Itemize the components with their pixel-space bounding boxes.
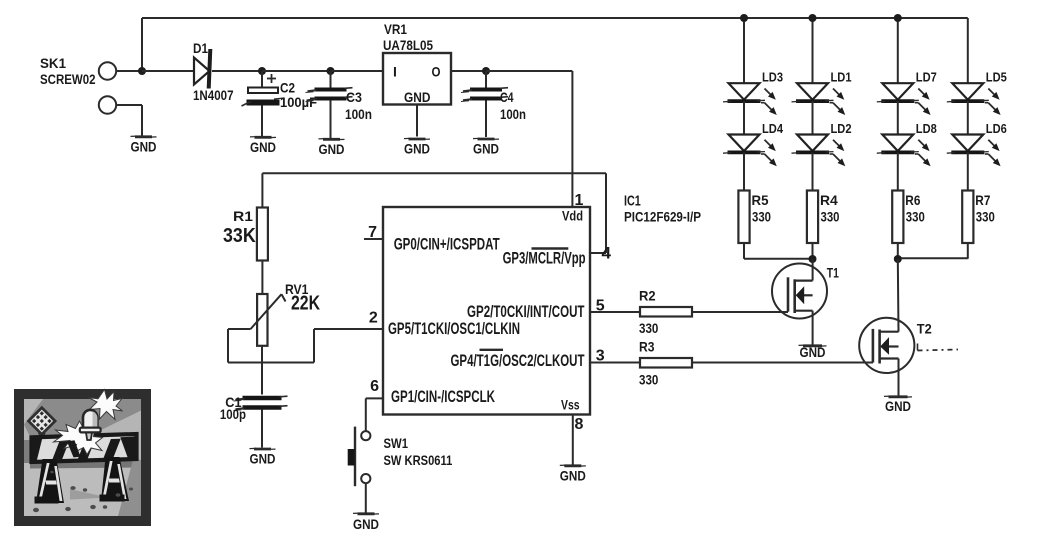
- svg-text:6: 6: [370, 378, 379, 395]
- svg-text:Vss: Vss: [561, 398, 580, 413]
- wire R5 bottom link to T1 drain node: [744, 258, 813, 260]
- wire SK1 pin1 to node A: [116, 70, 142, 72]
- svg-text:100n: 100n: [500, 107, 526, 122]
- node T2 drain junction dot: [894, 255, 902, 263]
- svg-text:GP0/CIN+/ICSPDAT: GP0/CIN+/ICSPDAT: [394, 235, 500, 254]
- logo LED lamp: [80, 410, 101, 440]
- resistor R5 330: [738, 191, 771, 244]
- wire C1 to ground: [261, 410, 263, 448]
- wire LD1 to LD2: [812, 101, 814, 135]
- wire pin 8 to ground: [572, 415, 574, 466]
- logo pebbles: [33, 471, 133, 513]
- ground (C4): [473, 138, 499, 156]
- diode D1 1N4007: [193, 40, 234, 103]
- svg-text:GND: GND: [250, 139, 276, 155]
- svg-text:33K: 33K: [223, 225, 256, 247]
- node C junction dot: [327, 67, 335, 75]
- op-amp IC1 PIC12F629 body: [383, 193, 701, 414]
- svg-text:GP4/T1G/OSC2/CLKOUT: GP4/T1G/OSC2/CLKOUT: [451, 351, 585, 370]
- wire top +V rail: [142, 17, 968, 19]
- svg-text:GND: GND: [404, 89, 431, 105]
- svg-text:4: 4: [602, 244, 612, 263]
- wire rail to LD3: [743, 18, 745, 83]
- wire Vpp net down to pin 4: [590, 173, 606, 253]
- svg-text:D1: D1: [193, 40, 208, 56]
- pin 1 Vdd label: [562, 192, 584, 224]
- LED LD6: [947, 135, 1001, 167]
- resistor R2 330: [639, 288, 692, 337]
- ground (T2): [884, 396, 912, 414]
- wire R6 down: [897, 243, 899, 259]
- wire VR1 GND pin: [416, 105, 418, 137]
- node B junction dot: [258, 67, 266, 75]
- wire wiper to IC1 pin 2: [314, 328, 383, 330]
- svg-text:GND: GND: [560, 467, 586, 483]
- svg-text:VR1: VR1: [384, 21, 407, 37]
- logo barrier left leg: [35, 459, 65, 504]
- wire rail to LD7: [897, 18, 899, 83]
- wire VR1 output to node D: [451, 70, 486, 72]
- wire D1 cathode to node B: [212, 70, 262, 72]
- svg-text:GND: GND: [131, 138, 157, 154]
- svg-text:330: 330: [976, 210, 995, 225]
- svg-text:GND: GND: [319, 141, 345, 157]
- wire node to T1 drain: [812, 259, 814, 281]
- logo flash right: [89, 390, 123, 420]
- svg-text:330: 330: [906, 210, 925, 225]
- svg-text:SK1: SK1: [40, 55, 66, 71]
- label SK1 SCREW02: [40, 55, 96, 87]
- svg-text:SCREW02: SCREW02: [40, 72, 96, 87]
- wire R1 to RV1: [261, 261, 263, 295]
- svg-text:1: 1: [575, 192, 584, 209]
- resistor R3 330: [639, 338, 692, 387]
- wire node D to IC1 pin 1: [486, 71, 572, 207]
- svg-text:LD2: LD2: [831, 121, 852, 136]
- wire pin 6 to SW1: [365, 398, 367, 431]
- ground (C2): [250, 137, 276, 155]
- resistor R1 33K: [223, 208, 268, 261]
- wire LD3 to LD4: [743, 101, 745, 135]
- svg-text:LD4: LD4: [762, 121, 784, 136]
- wire rail to LD5: [967, 18, 969, 83]
- wire RV1 bottom to C1: [261, 346, 263, 395]
- svg-text:GP3/MCLR/Vpp: GP3/MCLR/Vpp: [503, 249, 586, 268]
- wire LD8 to R6: [897, 153, 899, 191]
- svg-text:R7: R7: [975, 192, 990, 208]
- wire LD6 to R7: [967, 153, 969, 191]
- pin 7 label: [368, 224, 500, 254]
- svg-text:GND: GND: [800, 344, 826, 360]
- pin 3 GP4 label: [451, 348, 605, 371]
- transistor T2 MOSFET: [859, 318, 932, 373]
- svg-text:T1: T1: [827, 265, 839, 280]
- LED LD2: [792, 135, 846, 167]
- node rail junction LD3: [740, 14, 748, 22]
- wire node B down to C2: [261, 71, 263, 88]
- LED LD5: [947, 83, 1001, 115]
- wire C2 to ground: [261, 106, 263, 137]
- logo barrier right leg: [100, 457, 130, 502]
- svg-text:2: 2: [369, 309, 378, 326]
- svg-text:O: O: [432, 63, 441, 79]
- trimmer RV1 22K: [251, 281, 321, 346]
- svg-text:R4: R4: [820, 192, 838, 208]
- svg-text:LD3: LD3: [762, 69, 783, 84]
- svg-text:GND: GND: [473, 141, 499, 157]
- wire R5 down: [743, 243, 745, 259]
- wire T1 source to ground: [812, 311, 814, 346]
- ground (C1): [250, 448, 276, 466]
- svg-text:330: 330: [639, 373, 658, 388]
- svg-text:R5: R5: [752, 192, 769, 208]
- svg-text:R1: R1: [233, 208, 253, 224]
- svg-text:SW KRS0611: SW KRS0611: [384, 453, 453, 468]
- switch SW1 KRS0611: [348, 427, 453, 487]
- wire pin 5 to R2: [590, 311, 640, 313]
- wire node A to D1 anode: [142, 70, 194, 72]
- pin 5 GP2 label: [467, 297, 605, 321]
- svg-text:T2: T2: [917, 321, 932, 336]
- node rail junction LD7: [894, 14, 902, 22]
- svg-text:GND: GND: [404, 141, 430, 157]
- wire R2 to T1 gate: [692, 311, 788, 313]
- svg-text:GND: GND: [885, 398, 911, 414]
- LED LD8: [877, 135, 931, 167]
- LED LD4: [723, 135, 777, 167]
- logo roadworks frame: [14, 389, 151, 526]
- wire Vpp net down to R1: [261, 173, 263, 207]
- svg-text:LD6: LD6: [986, 121, 1007, 136]
- wire R7 down: [967, 243, 969, 259]
- svg-text:SW1: SW1: [384, 435, 409, 451]
- capacitor C4 100n: [461, 88, 526, 122]
- svg-text:R3: R3: [639, 338, 655, 354]
- svg-text:IC1: IC1: [624, 193, 641, 209]
- node A junction dot: [138, 67, 146, 75]
- capacitor C1 100p: [220, 394, 288, 422]
- node rail junction LD1: [809, 14, 817, 22]
- wire rail drop to SK1 node: [141, 18, 143, 71]
- wire wiper jog down: [228, 329, 314, 363]
- LED LD3: [723, 83, 777, 115]
- logo flash left: [54, 421, 103, 457]
- svg-text:8: 8: [575, 416, 584, 433]
- ground (SW1): [353, 513, 379, 532]
- wire node D down to C4: [485, 71, 487, 88]
- LED LD7: [877, 83, 931, 115]
- svg-text:330: 330: [639, 321, 658, 336]
- svg-text:1N4007: 1N4007: [193, 88, 234, 103]
- node D junction dot: [482, 67, 490, 75]
- regulator VR1 UA78L05: [383, 21, 451, 105]
- wire R7 bottom link to T2 drain node: [898, 257, 968, 259]
- wire LD4 to R5: [743, 153, 745, 191]
- svg-text:100p: 100p: [220, 407, 246, 422]
- transistor T1 MOSFET: [772, 264, 839, 319]
- logo gray background wedges: [24, 399, 141, 516]
- svg-text:C3: C3: [346, 89, 362, 105]
- logo checkered sign: [29, 408, 56, 439]
- svg-text:330: 330: [821, 210, 840, 225]
- svg-text:GP2/T0CKI/INT/COUT: GP2/T0CKI/INT/COUT: [467, 302, 585, 321]
- resistor R6 330: [892, 191, 925, 244]
- pin 7 GP0 stub: [364, 238, 383, 240]
- ground (SK1): [131, 136, 157, 154]
- wire C4 to ground: [485, 101, 487, 138]
- svg-text:I: I: [393, 63, 397, 79]
- wire Vpp net horizontal: [262, 172, 606, 174]
- wire LD2 to R4: [812, 153, 814, 191]
- wire SK1 pin2 to ground: [116, 105, 142, 136]
- ground (VR1): [404, 138, 430, 156]
- ground (C3): [319, 139, 345, 157]
- svg-text:GP1/CIN-/ICSPCLK: GP1/CIN-/ICSPCLK: [391, 387, 495, 406]
- wire node C down to C3: [330, 71, 332, 88]
- svg-text:330: 330: [752, 210, 771, 225]
- LED LD1: [792, 83, 846, 115]
- svg-text:C2: C2: [280, 80, 295, 96]
- ground (Vss): [560, 465, 586, 483]
- connector SK1 pin 1: [99, 62, 116, 79]
- pin 8 Vss label: [561, 398, 584, 433]
- wire SW1 to ground: [365, 483, 367, 512]
- svg-text:22K: 22K: [291, 293, 320, 315]
- svg-text:Vdd: Vdd: [562, 209, 583, 224]
- svg-text:100n: 100n: [345, 107, 372, 122]
- svg-text:C4: C4: [500, 89, 514, 105]
- wire LD7 to LD8: [897, 101, 899, 135]
- wire RV1 wiper stub: [228, 328, 251, 330]
- wire C3 to ground: [330, 101, 332, 139]
- wire LD5 to LD6: [967, 101, 969, 135]
- svg-text:UA78L05: UA78L05: [383, 38, 433, 53]
- svg-text:PIC12F629-I/P: PIC12F629-I/P: [624, 210, 701, 225]
- svg-text:7: 7: [368, 224, 377, 241]
- pin 4 GP3 label: [503, 244, 612, 268]
- svg-text:GP5/T1CKI/OSC1/CLKIN: GP5/T1CKI/OSC1/CLKIN: [388, 319, 520, 338]
- svg-text:LD8: LD8: [916, 121, 937, 136]
- svg-text:LD5: LD5: [986, 69, 1007, 84]
- ground (T1): [799, 344, 827, 360]
- wire T2 source to ground: [898, 359, 900, 397]
- capacitor C3 100n: [306, 88, 373, 122]
- resistor R4 330: [807, 191, 840, 244]
- svg-text:LD7: LD7: [916, 69, 937, 84]
- wire pin 3 to R3: [590, 362, 640, 364]
- wire R4 down: [812, 243, 814, 259]
- node T1 drain junction dot: [809, 255, 817, 263]
- T2 dashed annotation: [918, 344, 959, 351]
- wire node B to node C: [262, 70, 331, 72]
- svg-text:R2: R2: [639, 288, 656, 304]
- svg-text:LD1: LD1: [831, 69, 852, 84]
- svg-text:GND: GND: [250, 451, 276, 467]
- connector SK1 pin 2: [99, 96, 116, 113]
- logo barrier board: [32, 434, 137, 462]
- capacitor C2 100uF: [242, 74, 318, 110]
- svg-text:GND: GND: [353, 516, 379, 532]
- pin 2 label: [369, 309, 520, 338]
- wire R3 to T2 gate: [692, 362, 873, 364]
- pin 6 label: [370, 378, 495, 406]
- pin 6 GP1 stub: [366, 397, 383, 399]
- wire node to T2 drain: [897, 259, 900, 332]
- wire rail to LD1: [812, 18, 814, 83]
- wire node C to VR1 input: [331, 70, 384, 72]
- resistor R7 330: [962, 191, 995, 244]
- svg-text:R6: R6: [905, 192, 920, 208]
- svg-text:100µF: 100µF: [280, 95, 317, 110]
